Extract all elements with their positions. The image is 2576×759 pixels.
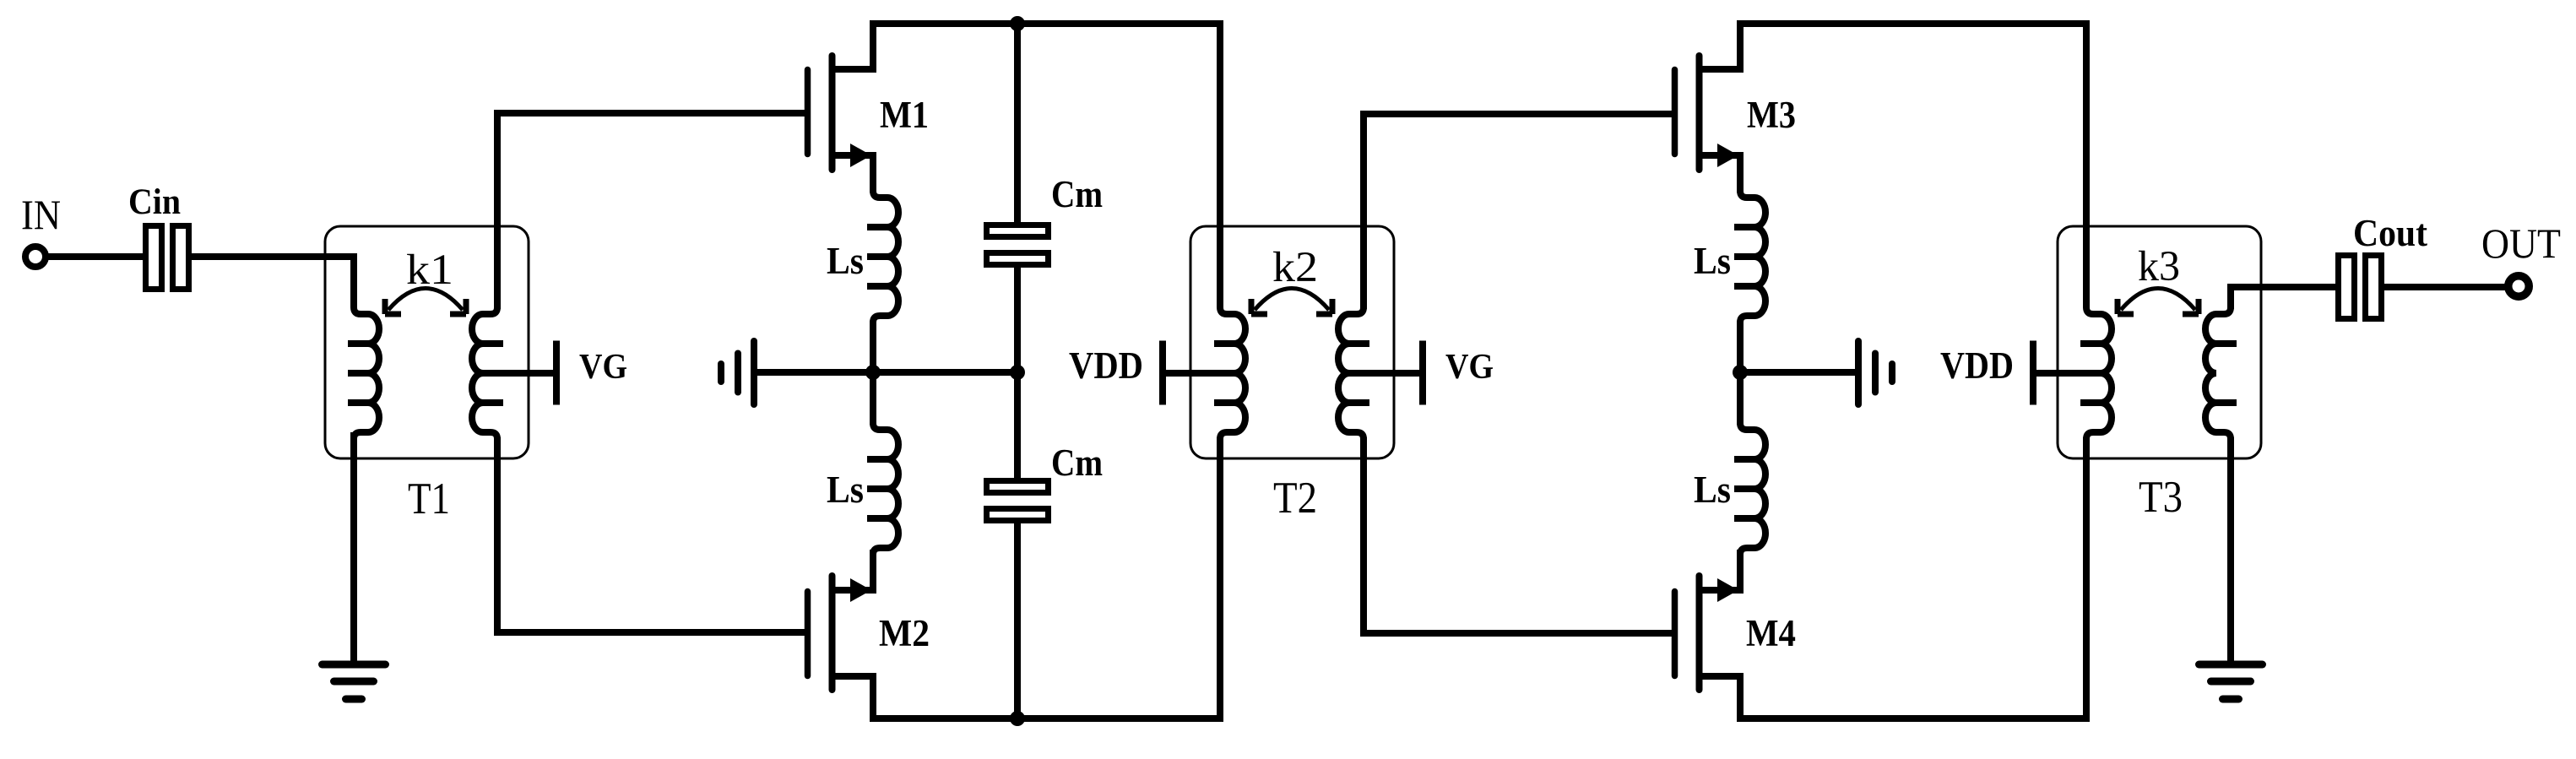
svg-text:Cout: Cout [2353, 212, 2427, 254]
wire bottom rail stage2 [1740, 437, 2086, 718]
inductor Ls lower stage1 [827, 418, 898, 560]
svg-text:M3: M3 [1747, 94, 1796, 136]
label T3 [2139, 473, 2183, 522]
svg-text:VG: VG [579, 348, 627, 387]
inductor T1 primary winding [348, 302, 379, 444]
transistor M4 [1675, 553, 1797, 690]
wire T1 secondary bottom to M2 gate [497, 437, 805, 632]
capacitor Cin [128, 182, 189, 290]
wire T3 secondary bottom to ground [2227, 437, 2234, 666]
transformer T2 box [1190, 226, 1394, 458]
svg-text:VG: VG [1445, 348, 1494, 387]
svg-text:Ls: Ls [1694, 240, 1731, 282]
inductor Ls upper stage2 [1694, 186, 1765, 328]
coupling k1 [385, 247, 466, 314]
label T2 [1273, 474, 1317, 523]
capacitor Cout [2339, 212, 2428, 319]
inductor T2 primary winding [1214, 302, 1245, 444]
ac ground stage2 [1858, 341, 1892, 404]
label T1 [408, 474, 450, 523]
wire T2 secondary bottom to M4 gate [1364, 437, 1672, 633]
svg-text:Cm: Cm [1051, 172, 1103, 215]
wire T1 primary center tick [348, 370, 368, 377]
svg-text:VDD: VDD [1069, 344, 1143, 387]
wire T2 secondary tap to VG [1349, 370, 1420, 377]
inductor T3 primary winding [2080, 302, 2112, 444]
wire T1 primary to ground [350, 432, 357, 666]
capacitor Cm upper [987, 172, 1104, 265]
wire center rail stage1 [754, 369, 1017, 376]
node IN terminal [21, 191, 61, 267]
svg-text:OUT: OUT [2481, 220, 2561, 267]
wire top rail stage2 [1740, 24, 2086, 306]
coupling k3 [2118, 243, 2199, 314]
node junction Ls center stage1 [865, 365, 881, 380]
transformer T3 box [2058, 226, 2261, 458]
wire T1 secondary tap to VG [483, 370, 554, 377]
node junction top rail Cm [1010, 16, 1025, 31]
wire Ls lower to M2 source [870, 550, 876, 557]
transformer T1 box [325, 226, 529, 458]
node VDD stage2 [1940, 341, 2033, 405]
wire Cm lower to bottom rail [1014, 523, 1021, 718]
wire bottom rail stage1 [873, 437, 1220, 718]
svg-text:M1: M1 [880, 94, 929, 136]
node junction center Cm [1010, 365, 1025, 380]
wire Cm upper to center [1014, 268, 1021, 372]
ground below T1 [323, 664, 386, 699]
wire IN to Cin [47, 253, 145, 260]
inductor T1 secondary winding [472, 302, 503, 444]
capacitor Cm lower [987, 441, 1104, 521]
wire VDD to T3 primary tap [2033, 370, 2101, 377]
wire T2 secondary top to M3 gate [1364, 114, 1672, 309]
svg-text:T3: T3 [2139, 473, 2183, 522]
svg-text:k3: k3 [2138, 243, 2180, 290]
inductor T3 secondary winding [2205, 302, 2237, 444]
svg-text:T2: T2 [1273, 474, 1317, 523]
wire center rail stage2 [1740, 369, 1856, 376]
svg-text:k1: k1 [406, 247, 453, 294]
wire Ls lower to M4 source [1737, 550, 1744, 557]
coupling k2 [1251, 244, 1332, 314]
svg-text:Cin: Cin [128, 182, 181, 222]
wire Ls to center node stage2 [1737, 321, 1744, 425]
wire T3 secondary top to Cout [2231, 287, 2338, 309]
wire top rail to Cm upper [1014, 24, 1021, 224]
ground below T3 [2199, 664, 2263, 699]
node junction bottom rail Cm [1010, 711, 1025, 726]
transistor M3 [1675, 56, 1797, 192]
node OUT terminal [2481, 220, 2561, 296]
inductor T2 secondary winding [1338, 302, 1369, 444]
transistor M2 [808, 553, 930, 690]
node VG bias stage2 [1423, 341, 1494, 405]
svg-text:IN: IN [21, 191, 61, 238]
svg-text:VDD: VDD [1940, 344, 2014, 387]
inductor Ls upper stage1 [827, 186, 898, 328]
inductor Ls lower stage2 [1694, 418, 1765, 560]
wire VDD to T2 primary tap [1163, 370, 1234, 377]
node VDD stage1 [1069, 341, 1163, 405]
wire T1 secondary top to M1 gate [497, 113, 805, 309]
svg-text:M2: M2 [879, 612, 930, 654]
transistor M1 [808, 56, 930, 192]
wire top rail stage1 [873, 24, 1220, 306]
svg-text:T1: T1 [408, 474, 450, 523]
node VG bias stage1 [556, 341, 627, 405]
wire Ls to center node stage1 [870, 321, 876, 425]
svg-text:Ls: Ls [827, 469, 864, 511]
wire Cout to OUT [2384, 284, 2506, 290]
svg-text:Cm: Cm [1051, 441, 1103, 484]
wire center to Cm lower [1014, 372, 1021, 480]
wire Cin to T1 primary [192, 257, 354, 306]
node junction Ls center stage2 [1733, 365, 1748, 380]
svg-text:k2: k2 [1272, 244, 1318, 291]
svg-text:Ls: Ls [827, 240, 864, 282]
svg-text:M4: M4 [1746, 612, 1796, 654]
svg-text:Ls: Ls [1694, 469, 1731, 511]
ac ground stage1 [721, 341, 754, 404]
